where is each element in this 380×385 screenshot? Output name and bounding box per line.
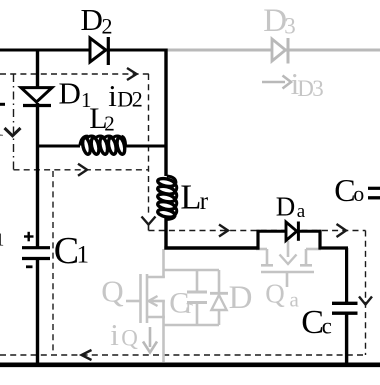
svg-text:a: a	[297, 201, 306, 222]
svg-text:Q: Q	[101, 274, 123, 309]
svg-text:L: L	[180, 178, 201, 216]
svg-text:D: D	[276, 192, 296, 222]
svg-text:r: r	[186, 294, 193, 318]
svg-text:i: i	[110, 317, 119, 352]
svg-text:1: 1	[77, 242, 90, 269]
svg-text:2: 2	[104, 111, 115, 135]
svg-text:1: 1	[0, 115, 4, 140]
svg-text:1: 1	[0, 229, 4, 249]
svg-text:i: i	[108, 78, 117, 113]
svg-text:r: r	[200, 188, 209, 215]
svg-text:D: D	[229, 280, 253, 316]
svg-text:c: c	[322, 313, 332, 338]
svg-text:C: C	[54, 230, 79, 272]
svg-text:2: 2	[132, 87, 143, 112]
svg-text:o: o	[353, 181, 364, 206]
svg-text:Q: Q	[121, 326, 138, 351]
svg-text:3: 3	[284, 13, 296, 38]
svg-text:Q: Q	[265, 278, 285, 308]
svg-text:a: a	[290, 288, 300, 312]
svg-text:D: D	[81, 2, 103, 37]
svg-text:3: 3	[312, 76, 324, 101]
svg-text:2: 2	[102, 14, 113, 39]
svg-text:C: C	[301, 304, 324, 341]
svg-text:D: D	[117, 87, 133, 112]
svg-text:D: D	[59, 76, 81, 111]
